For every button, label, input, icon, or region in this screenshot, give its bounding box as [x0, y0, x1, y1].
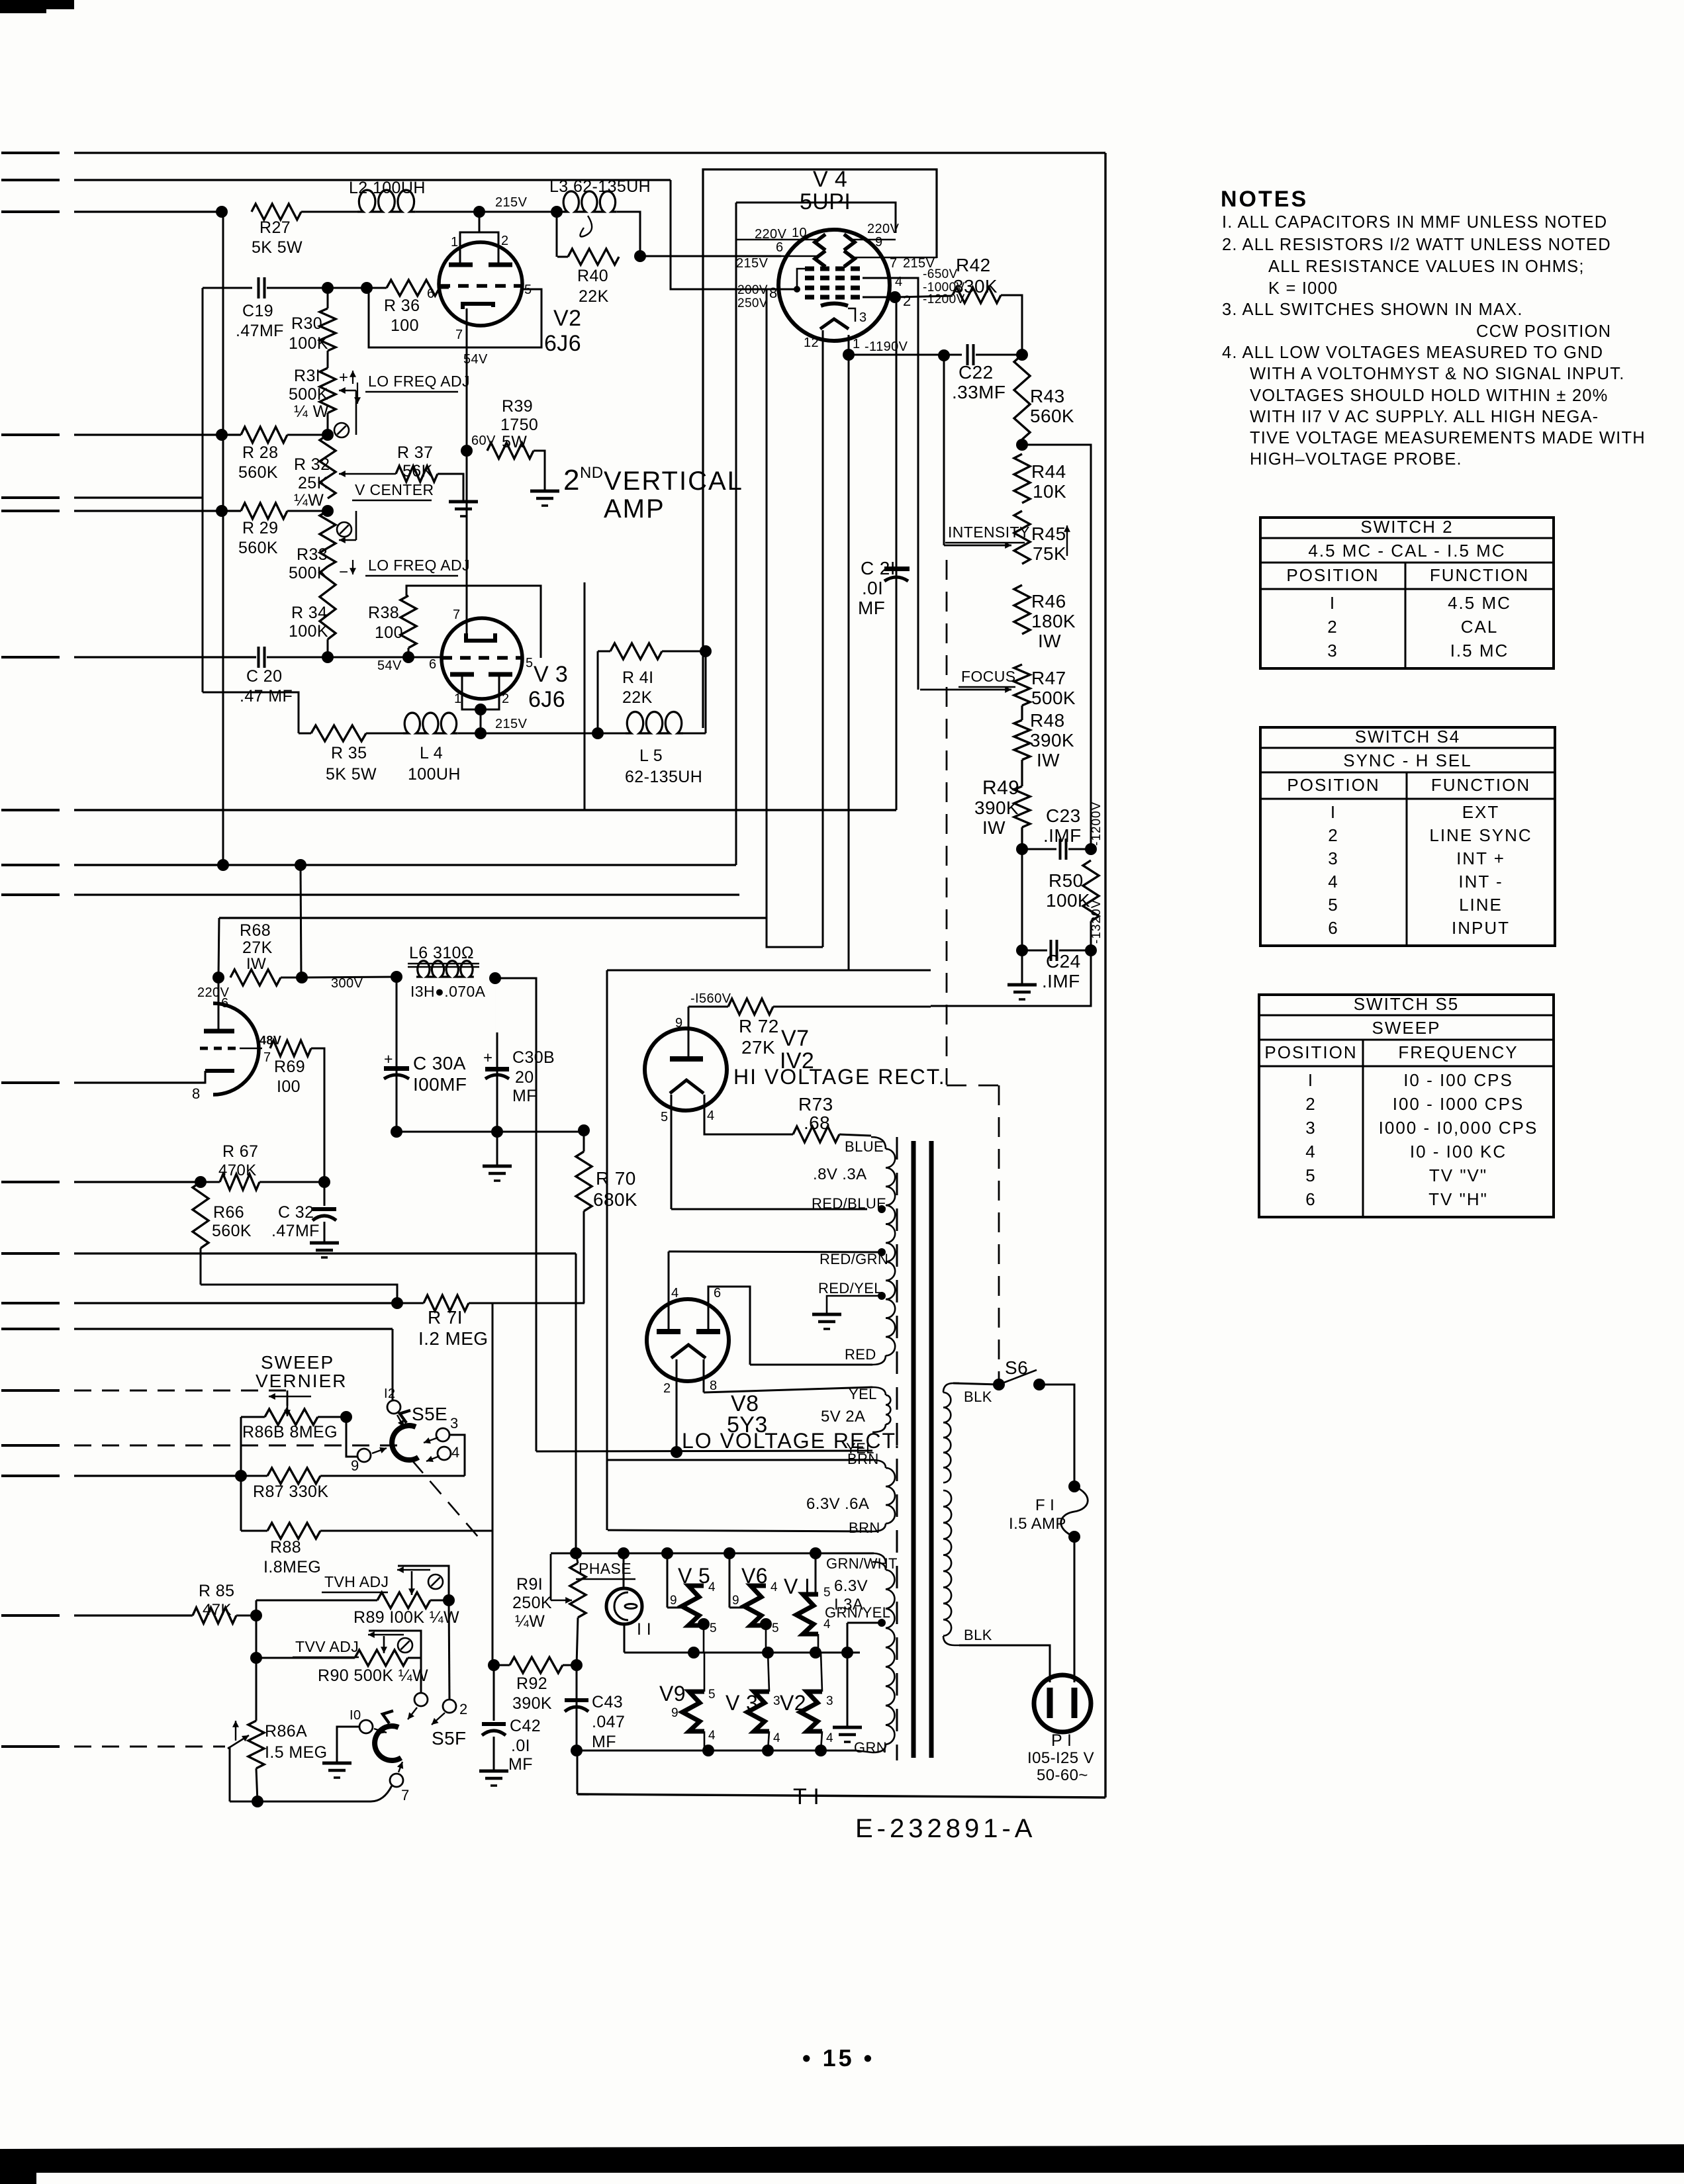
svg-text:180K: 180K	[1031, 611, 1076, 631]
potentiometer R86B	[241, 1416, 265, 1418]
node PHASE rail V5	[661, 1547, 673, 1559]
svg-text:215V: 215V	[495, 195, 528, 210]
svg-text:3: 3	[859, 310, 867, 325]
resistor R72	[728, 999, 773, 1015]
pot R89 wiper	[397, 1569, 430, 1571]
svg-text:I05-I25 V: I05-I25 V	[1027, 1749, 1094, 1767]
svg-text:C42: C42	[510, 1717, 541, 1735]
svg-text:R69: R69	[274, 1058, 305, 1076]
node tap RED/GRN	[878, 1248, 886, 1256]
svg-text:100K: 100K	[1046, 890, 1090, 911]
capacitor C42	[482, 1722, 506, 1726]
svg-text:5: 5	[708, 1688, 716, 1702]
svg-text:V 3: V 3	[534, 662, 568, 687]
svg-text:IW: IW	[982, 817, 1006, 838]
wire R50 bottom	[1090, 921, 1092, 950]
pot R91 wiper	[551, 1600, 572, 1602]
wire pin12 column	[822, 330, 824, 947]
wire R30 column top	[327, 288, 329, 308]
wire R30-R31	[327, 351, 329, 368]
resistor R68	[230, 970, 281, 985]
svg-text:C30B: C30B	[512, 1048, 555, 1067]
resistor R36	[387, 280, 440, 296]
svg-text:TIVE VOLTAGE MEASUREMENTS MADE: TIVE VOLTAGE MEASUREMENTS MADE WITH	[1250, 429, 1646, 447]
resistor R46 (vertical)	[1014, 585, 1030, 634]
svg-text:GRN: GRN	[854, 1739, 887, 1756]
resistor R37	[396, 466, 438, 482]
svg-text:10K: 10K	[1033, 481, 1066, 502]
tube V3 grid	[442, 656, 522, 660]
tube V6A cathode	[205, 1069, 234, 1073]
tube V8 filament	[671, 1345, 706, 1358]
resistor R85	[193, 1608, 236, 1623]
svg-text:R86B 8MEG: R86B 8MEG	[242, 1423, 338, 1441]
svg-text:HI VOLTAGE RECT.: HI VOLTAGE RECT.	[733, 1065, 946, 1089]
svg-text:R 34: R 34	[291, 604, 327, 622]
svg-text:.0I: .0I	[511, 1737, 530, 1755]
svg-text:L2 100UH: L2 100UH	[349, 179, 426, 197]
wire plate feed V2	[479, 212, 481, 233]
svg-text:390K: 390K	[1030, 730, 1074, 751]
wire R72 row	[688, 1006, 728, 1008]
svg-text:R 29: R 29	[242, 519, 278, 537]
wire RED/GRN row	[669, 1251, 882, 1252]
node R71 left	[391, 1297, 403, 1309]
wire left entry y=772	[1, 510, 60, 512]
wire YEL top row	[704, 1387, 872, 1392]
svg-text:I2: I2	[384, 1387, 395, 1401]
node R67 left	[195, 1176, 207, 1188]
svg-text:6.3V .6A: 6.3V .6A	[806, 1495, 869, 1513]
wire pin1 column	[848, 335, 850, 970]
wire R40 left drop	[556, 212, 558, 257]
svg-text:FREQUENCY: FREQUENCY	[1398, 1042, 1518, 1062]
svg-text:500K: 500K	[289, 385, 328, 404]
node R38 bottom	[402, 651, 414, 663]
svg-text:R68: R68	[240, 921, 271, 940]
pot R45 arrow up	[1066, 525, 1068, 556]
wire pin9 stem V7	[688, 1007, 690, 1058]
wire R71 rail	[397, 1302, 424, 1304]
svg-text:.68: .68	[804, 1113, 830, 1133]
svg-text:R66: R66	[213, 1203, 244, 1222]
svg-text:C 32: C 32	[278, 1203, 314, 1222]
wire x454 drop	[301, 865, 301, 978]
node R29 left	[216, 505, 228, 517]
wire 54V bracket	[369, 289, 541, 347]
node rail B x339	[217, 859, 229, 871]
wire R27 column	[222, 212, 224, 865]
wire BRN bottom row	[608, 1530, 872, 1531]
resistor R27	[252, 204, 301, 220]
svg-text:27K: 27K	[741, 1037, 775, 1058]
svg-text:6: 6	[429, 657, 437, 672]
svg-text:¼ W: ¼ W	[294, 402, 329, 421]
node R49/C23	[1016, 843, 1028, 855]
svg-text:POSITION: POSITION	[1286, 565, 1379, 585]
pot R90 box	[369, 1631, 421, 1658]
svg-text:SWITCH 2: SWITCH 2	[1360, 517, 1453, 537]
tube V6A grid	[200, 1047, 240, 1050]
svg-text:7: 7	[453, 608, 461, 622]
svg-text:330K: 330K	[953, 276, 998, 296]
node C23 right	[1085, 843, 1097, 855]
svg-text:27K: 27K	[242, 938, 273, 957]
switch S5F pin1	[414, 1693, 428, 1706]
wire pin8 feed	[671, 180, 797, 289]
pot R86A wiper arrows	[235, 1721, 236, 1741]
node V3/215V	[475, 727, 487, 739]
svg-text:WITH II7 V AC SUPPLY. ALL HIG: WITH II7 V AC SUPPLY. ALL HIGH NEGA-	[1250, 408, 1599, 426]
wire pin1 row	[607, 970, 931, 972]
svg-text:1750: 1750	[500, 416, 538, 434]
tube V4 cathode	[821, 304, 848, 306]
svg-text:CAL: CAL	[1461, 617, 1499, 637]
svg-text:R3I: R3I	[294, 367, 320, 385]
svg-text:4: 4	[1305, 1142, 1316, 1161]
resistor R48 (vertical)	[1014, 720, 1030, 760]
svg-text:47K: 47K	[203, 1601, 232, 1619]
potentiometer R45	[1014, 511, 1030, 564]
wire mid heater rail	[624, 1652, 860, 1654]
transformer T1 6.3V1.3A secondary	[872, 1562, 886, 1570]
tube V8 plates	[657, 1329, 680, 1334]
svg-text:20: 20	[515, 1068, 534, 1087]
resistor R87	[267, 1468, 320, 1484]
svg-text:5: 5	[772, 1621, 779, 1635]
tube V7 plate	[670, 1056, 703, 1062]
node R68 left	[212, 972, 224, 983]
wire R43 branch right	[1022, 445, 1091, 849]
capacitor C21 (on column)	[884, 567, 910, 571]
tube V2 envelope	[439, 242, 522, 326]
svg-text:GRN/YEL: GRN/YEL	[825, 1604, 890, 1621]
node R68 right	[296, 972, 308, 983]
transformer T1 5V secondary	[872, 1387, 886, 1395]
wire left entry y=2441	[1, 1614, 60, 1617]
svg-text:SWITCH S4: SWITCH S4	[1355, 727, 1461, 747]
wire V2 cathode column	[466, 308, 468, 633]
svg-text:GRN/WHT: GRN/WHT	[826, 1555, 898, 1572]
svg-text:22K: 22K	[579, 287, 609, 306]
node C30A bottom	[391, 1126, 402, 1138]
svg-text:VERTICAL: VERTICAL	[604, 467, 743, 496]
svg-text:.0I: .0I	[862, 578, 883, 598]
pot R89 box	[398, 1566, 449, 1600]
svg-text:4: 4	[708, 1580, 716, 1594]
svg-text:5: 5	[710, 1621, 717, 1635]
svg-text:R 85: R 85	[199, 1582, 234, 1600]
wire pin10 row	[337, 1727, 359, 1762]
svg-text:300V: 300V	[331, 976, 363, 991]
svg-text:I: I	[1308, 1070, 1314, 1090]
potentiometer R91	[576, 1553, 578, 1563]
svg-text:R90 500K ¼W: R90 500K ¼W	[318, 1666, 428, 1685]
wire left entry y=231	[1, 152, 60, 154]
svg-text:R9I: R9I	[516, 1575, 543, 1594]
svg-text:MF: MF	[508, 1755, 533, 1774]
wire x744 drop	[492, 1303, 494, 1665]
svg-text:TVV ADJ: TVV ADJ	[295, 1638, 359, 1655]
svg-text:4: 4	[1328, 872, 1338, 891]
tube V7 envelope	[645, 1028, 727, 1111]
svg-text:S6: S6	[1005, 1357, 1028, 1378]
svg-text:215V: 215V	[495, 717, 528, 731]
svg-text:2: 2	[1327, 617, 1338, 637]
node mid rail V6	[762, 1647, 774, 1659]
svg-text:¼W: ¼W	[515, 1612, 545, 1631]
svg-text:R73: R73	[798, 1094, 833, 1115]
node C30B bottom	[491, 1126, 503, 1138]
pot R33 wiper	[339, 539, 356, 541]
wire RED lead	[750, 1364, 872, 1366]
wire F1 to P1	[1074, 1537, 1076, 1682]
svg-text:INPUT: INPUT	[1452, 918, 1510, 938]
potentiometer R33	[320, 511, 336, 567]
svg-text:4: 4	[771, 1580, 778, 1594]
node R86B right	[340, 1411, 352, 1423]
wire V4 inner box top	[736, 203, 896, 233]
svg-text:7: 7	[401, 1787, 410, 1803]
svg-text:TVH ADJ: TVH ADJ	[324, 1573, 389, 1590]
svg-text:C23: C23	[1046, 805, 1081, 826]
svg-text:I.8MEG: I.8MEG	[263, 1558, 321, 1576]
svg-text:R49: R49	[982, 777, 1019, 799]
node tap RED/BLUE	[878, 1205, 886, 1213]
node R89 right	[443, 1594, 455, 1606]
pot R90 wiper	[368, 1634, 404, 1636]
wire left entry (dashed) y=2101	[1, 1389, 60, 1392]
svg-text:SWITCH S5: SWITCH S5	[1354, 994, 1460, 1014]
tube V3 plates	[450, 672, 474, 677]
svg-text:500K: 500K	[1031, 688, 1076, 708]
table SWITCH 2	[1260, 517, 1554, 518]
svg-text:3: 3	[450, 1415, 459, 1432]
wire pin2 V8	[676, 1359, 678, 1452]
resistor R73	[793, 1126, 839, 1142]
resistor R38 (vertical)	[400, 596, 416, 648]
svg-text:V2: V2	[553, 306, 581, 331]
wire heater supply rail	[536, 1451, 872, 1451]
node mid rail V5	[688, 1647, 700, 1659]
ground C30B	[496, 1132, 498, 1165]
resistor R88	[267, 1523, 320, 1539]
svg-text:5K 5W: 5K 5W	[326, 765, 377, 784]
node C19/R30	[322, 282, 334, 294]
inductor L4	[403, 713, 458, 733]
svg-text:V9: V9	[659, 1682, 686, 1706]
node C24 left	[1016, 944, 1028, 956]
wire rail C	[219, 917, 767, 919]
node R28 left	[216, 429, 228, 441]
wire x917 drop	[606, 970, 608, 1530]
svg-text:.IMF: .IMF	[1043, 825, 1082, 846]
svg-text:2: 2	[1305, 1094, 1316, 1114]
node C22/R43	[1016, 349, 1028, 361]
wire into V3 grid	[408, 657, 442, 659]
wire pin10 column	[735, 203, 737, 865]
svg-text:ALL RESISTANCE VALUES IN OHMS;: ALL RESISTANCE VALUES IN OHMS;	[1268, 257, 1585, 276]
svg-text:560K: 560K	[212, 1222, 252, 1240]
ground C24	[1021, 950, 1023, 983]
svg-text:I00MF: I00MF	[413, 1074, 467, 1095]
svg-text:-1200V: -1200V	[1090, 801, 1103, 846]
wire 215V rail	[458, 733, 598, 735]
wire left entry y=1307	[1, 864, 60, 866]
wire pin10 lead	[736, 239, 819, 241]
wire pin8 V8	[703, 1359, 705, 1392]
tube V2 pins 1-2 bracket	[460, 232, 498, 265]
svg-text:3: 3	[1305, 1118, 1316, 1138]
svg-text:FUNCTION: FUNCTION	[1430, 565, 1529, 585]
svg-text:1: 1	[454, 692, 462, 706]
svg-text:S5E: S5E	[412, 1404, 447, 1424]
svg-text:RED: RED	[845, 1346, 876, 1363]
ground C42	[479, 1770, 508, 1773]
svg-text:+: +	[384, 1050, 393, 1068]
svg-text:INT +: INT +	[1456, 848, 1505, 868]
svg-text:T I: T I	[793, 1784, 819, 1809]
node bottom rail V3h	[762, 1745, 774, 1756]
wire I1 top	[623, 1553, 625, 1588]
tube V7 filament	[670, 1080, 704, 1093]
svg-text:MF: MF	[858, 598, 885, 618]
svg-text:62-135UH: 62-135UH	[625, 768, 702, 786]
switch S5E pin3	[436, 1428, 449, 1441]
svg-text:EXT: EXT	[1462, 802, 1500, 822]
svg-text:R 36: R 36	[384, 296, 420, 315]
node R92 right	[571, 1659, 583, 1671]
svg-text:R47: R47	[1031, 668, 1066, 688]
wire left entry y=752	[1, 496, 60, 499]
svg-text:.8V .3A: .8V .3A	[813, 1165, 867, 1183]
wire pin5 V7 drop	[671, 1095, 673, 1209]
svg-text:VERNIER: VERNIER	[256, 1371, 347, 1391]
resistor R70 (vertical)	[576, 1152, 592, 1211]
node pin2 V4	[889, 291, 901, 303]
wire pin4 V7 drop	[704, 1095, 793, 1134]
svg-text:4: 4	[451, 1444, 460, 1461]
svg-text:2: 2	[459, 1701, 468, 1717]
node R70 top	[578, 1124, 590, 1136]
ground R37	[449, 500, 478, 504]
svg-text:2. ALL RESISTORS I/2 WATT UNL: 2. ALL RESISTORS I/2 WATT UNLESS NOTED	[1222, 236, 1611, 254]
wire rail C jog	[767, 918, 823, 947]
wire GRN/YEL drop	[847, 1623, 849, 1726]
svg-text:L 5: L 5	[639, 747, 663, 765]
svg-text:• 15 •: • 15 •	[802, 2044, 874, 2071]
inductor L5	[626, 712, 683, 733]
svg-text:8: 8	[192, 1085, 201, 1102]
svg-text:TV "H": TV "H"	[1428, 1189, 1488, 1209]
wire left entry (dashed) y=2184	[1, 1444, 60, 1447]
wire pin8 V6A	[74, 1082, 191, 1084]
svg-text:POSITION: POSITION	[1264, 1042, 1357, 1062]
wire R86A bottom	[256, 1768, 257, 1801]
svg-text:HIGH–VOLTAGE PROBE.: HIGH–VOLTAGE PROBE.	[1250, 450, 1462, 469]
wire C20-R38	[328, 657, 408, 659]
tube V3 plate pins	[462, 676, 499, 709]
svg-text:4: 4	[707, 1109, 715, 1123]
svg-text:MF: MF	[592, 1733, 616, 1751]
node bottom rail V2h	[815, 1745, 827, 1756]
ground C32	[310, 1242, 339, 1245]
tube V4 deflection plates lower	[815, 251, 825, 267]
svg-text:LO FREQ ADJ: LO FREQ ADJ	[368, 373, 470, 390]
switch S5F pin10	[359, 1720, 373, 1733]
svg-text:R 4I: R 4I	[622, 668, 653, 687]
svg-text:3. ALL SWITCHES SHOWN IN MAX.: 3. ALL SWITCHES SHOWN IN MAX.	[1222, 300, 1523, 319]
wire C21 column	[896, 297, 898, 810]
resistor R43 (vertical)	[1014, 355, 1030, 439]
node R43/R44	[1016, 439, 1028, 451]
resistor R49 (vertical)	[1014, 786, 1030, 827]
svg-text:6.3V: 6.3V	[834, 1577, 868, 1595]
svg-text:R46: R46	[1031, 591, 1066, 612]
node R39/V2 cathode	[461, 445, 473, 457]
wire V2 pin5 drop	[584, 582, 586, 810]
svg-text:1: 1	[853, 337, 861, 351]
wire R35 riser	[203, 692, 299, 733]
node R87 left	[235, 1470, 247, 1482]
svg-text:V 4: V 4	[813, 167, 847, 192]
tube V6A plate	[204, 1029, 234, 1034]
tube V1 heater	[815, 1554, 817, 1594]
wire pin7 lead	[850, 257, 937, 259]
resistor R41	[598, 651, 610, 653]
node R67 right	[318, 1176, 330, 1188]
svg-text:C 20: C 20	[246, 667, 282, 686]
svg-text:I: I	[1330, 593, 1336, 613]
wire R86B drop	[346, 1417, 357, 1457]
node L6 right	[489, 972, 501, 984]
svg-text:R44: R44	[1031, 461, 1066, 482]
svg-text:54V: 54V	[463, 352, 488, 367]
tube V2 plates	[449, 263, 473, 267]
table SWITCH S4	[1260, 727, 1555, 728]
resistor R40	[557, 256, 568, 258]
svg-text:I00 - I000 CPS: I00 - I000 CPS	[1393, 1094, 1524, 1114]
node R36 left	[361, 282, 373, 294]
wire left entry y=272	[1, 179, 60, 181]
svg-text:K = I000: K = I000	[1268, 279, 1338, 298]
svg-text:I3H●.070A: I3H●.070A	[410, 983, 486, 1000]
svg-text:200V: 200V	[737, 283, 768, 297]
node rail B x454	[295, 859, 306, 871]
svg-text:-1190V: -1190V	[865, 340, 908, 354]
tube V4 grid graticule	[805, 267, 863, 271]
svg-text:R92: R92	[516, 1674, 547, 1693]
node R28/R31	[322, 429, 334, 441]
svg-text:390K: 390K	[512, 1694, 552, 1713]
svg-text:I: I	[1331, 802, 1336, 822]
wire bottom border	[577, 1794, 1105, 1797]
svg-text:7: 7	[890, 256, 898, 271]
svg-text:SYNC - H SEL: SYNC - H SEL	[1343, 751, 1472, 770]
wire pin4 V8	[668, 1251, 670, 1330]
capacitor C22	[966, 344, 969, 365]
node R85 right	[250, 1610, 262, 1621]
pot R31 wiper	[339, 390, 356, 392]
fuse F1	[1068, 1480, 1080, 1492]
resistor R28	[241, 427, 287, 443]
svg-text:BLUE: BLUE	[845, 1138, 884, 1155]
svg-text:L6 310Ω: L6 310Ω	[409, 944, 474, 962]
wire S5 gang dashed	[946, 560, 948, 1085]
transformer T1 HV secondary	[871, 1137, 886, 1149]
node bottom rail V9	[702, 1745, 714, 1756]
tube V8 envelope	[647, 1299, 729, 1381]
